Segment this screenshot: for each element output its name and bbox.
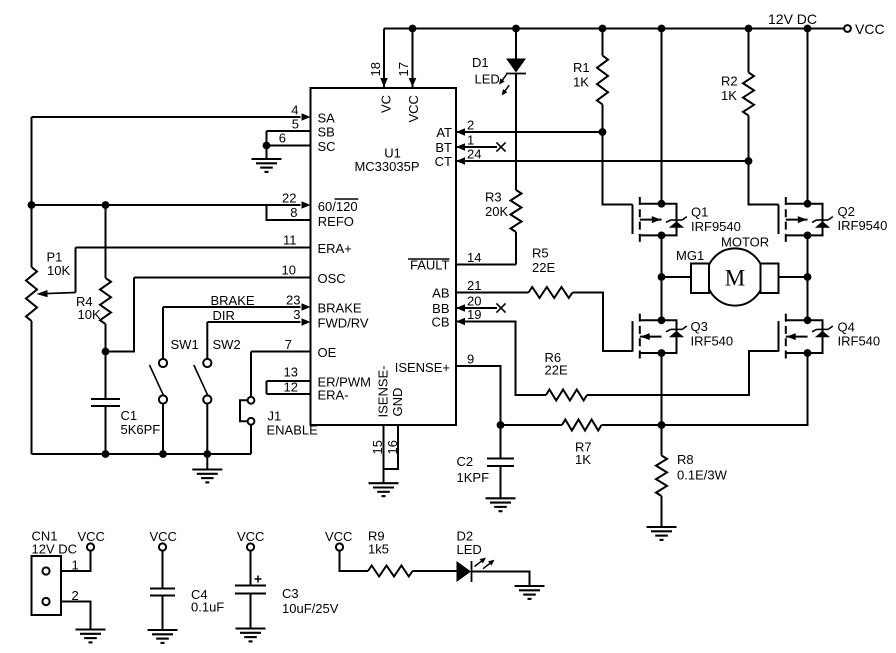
resistor R7 1K bbox=[562, 420, 602, 431]
label C1 5K6PF bbox=[121, 408, 161, 437]
svg-text:R8: R8 bbox=[677, 452, 694, 467]
pin labels U1 right side bbox=[395, 125, 452, 375]
label C2 1KPF bbox=[457, 454, 490, 485]
wire R5 to Q3 gate bbox=[573, 293, 633, 352]
wire GND pin 16 bbox=[384, 425, 399, 469]
label DIR bbox=[213, 308, 235, 323]
svg-text:3: 3 bbox=[293, 307, 300, 322]
wire ISENSE- pin 15 bbox=[383, 425, 385, 483]
svg-text:12V DC: 12V DC bbox=[768, 11, 817, 27]
svg-text:MG1: MG1 bbox=[676, 248, 704, 263]
pin labels U1 rotated bbox=[376, 95, 422, 418]
wire Q1 source to motor node A bbox=[658, 235, 666, 281]
svg-text:12V DC: 12V DC bbox=[32, 542, 78, 557]
wire R9 to D2 bbox=[413, 570, 457, 572]
svg-text:14: 14 bbox=[467, 250, 481, 265]
label C3 10uF/25V bbox=[282, 586, 339, 616]
svg-text:VCC: VCC bbox=[855, 21, 885, 37]
label Q4 IRF540 bbox=[838, 320, 881, 349]
svg-text:DIR: DIR bbox=[213, 308, 235, 323]
svg-text:R3: R3 bbox=[485, 190, 502, 205]
wire bottom rail bbox=[32, 450, 252, 458]
wire R2 to CT node bbox=[748, 116, 750, 162]
capacitor C1 5K6PF bbox=[91, 352, 120, 455]
wire D2 cathode to ground bbox=[472, 572, 530, 586]
wire VCC to R9 bbox=[340, 551, 369, 571]
label Q2 IRF9540 bbox=[838, 204, 888, 233]
svg-text:OE: OE bbox=[318, 345, 337, 360]
pin number 23 bbox=[286, 293, 300, 308]
svg-text:IRF540: IRF540 bbox=[691, 334, 734, 349]
wire R3 to FAULT pin 14 bbox=[456, 232, 516, 265]
wire REFO pin 8 bbox=[267, 205, 311, 220]
wire R6 to Q4 gate bbox=[587, 351, 779, 395]
resistor R1 1K bbox=[597, 56, 608, 105]
resistor R4 10K bbox=[100, 278, 111, 324]
wire Q3 source to sense node bbox=[661, 353, 663, 425]
svg-text:BRAKE: BRAKE bbox=[211, 293, 255, 308]
svg-text:10K: 10K bbox=[47, 263, 70, 278]
wire rail to R2 bbox=[745, 25, 753, 73]
svg-text:2: 2 bbox=[467, 118, 474, 133]
label D1 LED bbox=[472, 55, 500, 87]
label C4 0.1uF bbox=[191, 587, 224, 615]
pin number 22 bbox=[282, 191, 296, 206]
label CN1 12V DC bbox=[32, 529, 78, 557]
wire motor node B to Q4 drain bbox=[807, 277, 809, 320]
svg-text:10K: 10K bbox=[78, 307, 101, 322]
wire ISENSE+ pin 9 bbox=[456, 366, 504, 429]
svg-text:VCC: VCC bbox=[78, 529, 105, 544]
wire Q4 source return bbox=[662, 353, 808, 425]
svg-text:IRF9540: IRF9540 bbox=[838, 218, 888, 233]
resistor R9 1k5 bbox=[368, 566, 413, 577]
svg-text:0.1E/3W: 0.1E/3W bbox=[677, 468, 728, 483]
pin number 16 bbox=[385, 440, 400, 454]
resistor R5 22E bbox=[529, 287, 573, 298]
svg-text:6: 6 bbox=[279, 131, 286, 146]
wire OSC pin 10 bbox=[134, 277, 311, 279]
svg-text:AT: AT bbox=[436, 125, 452, 140]
svg-text:Q2: Q2 bbox=[838, 204, 855, 219]
resistor R3 20K bbox=[511, 190, 522, 232]
svg-text:1: 1 bbox=[467, 133, 474, 148]
svg-text:VCC: VCC bbox=[237, 529, 264, 544]
svg-text:SW1: SW1 bbox=[171, 337, 199, 352]
wire Q2 source to motor node B bbox=[804, 235, 812, 281]
wire FWD/RV pin 3 bbox=[207, 318, 310, 326]
wire CB pin 19 to R6 bbox=[456, 318, 546, 395]
svg-text:D1: D1 bbox=[472, 55, 489, 70]
power terminal VCC (top right) bbox=[844, 21, 884, 37]
wire left column bottom bbox=[31, 321, 33, 454]
pin number 20 bbox=[467, 294, 481, 309]
svg-text:20K: 20K bbox=[485, 204, 508, 219]
svg-text:23: 23 bbox=[286, 293, 300, 308]
wire ER/PWM pin 13 bbox=[267, 381, 311, 394]
resistor R6 22E bbox=[546, 390, 587, 401]
pin number 12 bbox=[284, 380, 298, 395]
pin number 24 bbox=[467, 147, 481, 162]
wire BB pin 20 (no connect) bbox=[456, 303, 506, 312]
label MOTOR MG1 bbox=[676, 235, 769, 264]
label R3 20K bbox=[485, 190, 508, 220]
svg-text:SW2: SW2 bbox=[213, 337, 241, 352]
svg-text:24: 24 bbox=[467, 147, 481, 162]
wire motor node A to Q3 drain bbox=[661, 277, 663, 320]
wire ERA+ pin 11 bbox=[76, 247, 311, 249]
motor MG1 bbox=[662, 248, 808, 305]
label R1 1K bbox=[573, 60, 590, 90]
svg-text:2: 2 bbox=[72, 588, 79, 603]
svg-text:1K: 1K bbox=[721, 88, 737, 103]
svg-text:22E: 22E bbox=[545, 363, 568, 378]
pin number 5 bbox=[292, 117, 299, 132]
op-amp U1 MC33035P body bbox=[311, 88, 457, 425]
pin 17 label bbox=[396, 62, 411, 76]
svg-text:Q4: Q4 bbox=[838, 320, 855, 335]
wire CN1 pin 1 to VCC bbox=[61, 551, 91, 571]
pin number 19 bbox=[467, 307, 481, 322]
svg-text:10: 10 bbox=[282, 263, 296, 278]
svg-text:OSC: OSC bbox=[318, 271, 346, 286]
wire C2 node to R7 bbox=[501, 424, 563, 426]
svg-text:GND: GND bbox=[390, 388, 405, 417]
svg-text:M: M bbox=[725, 266, 745, 291]
ground C4 bbox=[148, 630, 178, 643]
svg-text:MOTOR: MOTOR bbox=[721, 235, 769, 250]
label R9 1k5 bbox=[368, 529, 389, 557]
svg-text:1K: 1K bbox=[573, 75, 589, 90]
ground C3 bbox=[236, 629, 266, 642]
svg-text:SB: SB bbox=[318, 125, 335, 140]
svg-text:22: 22 bbox=[282, 191, 296, 206]
svg-text:SA: SA bbox=[318, 111, 336, 126]
power terminal VCC (C3) bbox=[237, 529, 264, 551]
potentiometer P1 10K bbox=[26, 248, 76, 322]
ground D2 bbox=[515, 586, 545, 599]
svg-text:BT: BT bbox=[435, 140, 452, 155]
label R4 10K bbox=[76, 294, 101, 322]
pin number 6 bbox=[279, 131, 286, 146]
power terminal VCC (CN1) bbox=[78, 529, 105, 551]
wire BT pin 1 (no connect) bbox=[456, 142, 506, 151]
svg-text:LED: LED bbox=[475, 72, 500, 87]
svg-text:ENABLE: ENABLE bbox=[267, 423, 319, 438]
wire VC pin 18 feed bbox=[380, 29, 388, 88]
pin number 15 bbox=[370, 440, 385, 454]
diode D1 LED bbox=[499, 59, 526, 96]
label R7 1K bbox=[575, 440, 592, 468]
wire R4 to OSC node bbox=[102, 324, 110, 355]
svg-text:7: 7 bbox=[285, 337, 292, 352]
svg-text:FWD/RV: FWD/RV bbox=[318, 316, 369, 331]
label SW2 bbox=[213, 337, 241, 352]
wire Q2 gate feed bbox=[749, 161, 779, 205]
ground bottom rail bbox=[192, 454, 222, 482]
label SW1 bbox=[171, 337, 199, 352]
svg-text:ISENSE-: ISENSE- bbox=[376, 365, 391, 417]
svg-text:CB: CB bbox=[431, 315, 449, 330]
pin number 7 bbox=[285, 337, 292, 352]
svg-text:IRF9540: IRF9540 bbox=[691, 219, 741, 234]
wire 60/120 pin 22 bbox=[28, 201, 311, 209]
svg-text:Q1: Q1 bbox=[691, 205, 708, 220]
label P1 10K bbox=[47, 250, 71, 279]
svg-text:C2: C2 bbox=[457, 454, 474, 469]
pin number 10 bbox=[282, 263, 296, 278]
wire Q1 gate feed bbox=[603, 132, 633, 205]
svg-text:17: 17 bbox=[396, 62, 411, 76]
label R5 22E bbox=[532, 246, 555, 276]
wire SB pin 5 bbox=[267, 131, 311, 146]
wire D1 cathode to R3 bbox=[515, 74, 517, 191]
resistor R2 1K bbox=[743, 73, 754, 116]
svg-text:BRAKE: BRAKE bbox=[318, 301, 362, 316]
wire BRAKE pin 23 bbox=[163, 303, 311, 311]
svg-text:1: 1 bbox=[72, 558, 79, 573]
svg-text:Q3: Q3 bbox=[691, 319, 708, 334]
label R6 22E bbox=[545, 350, 568, 378]
pin number 2 bbox=[72, 588, 79, 603]
svg-text:0.1uF: 0.1uF bbox=[191, 600, 224, 615]
node 12V DC label bbox=[768, 11, 817, 27]
svg-text:18: 18 bbox=[368, 62, 383, 76]
wire rail to Q1 drain bbox=[658, 25, 666, 204]
svg-text:5K6PF: 5K6PF bbox=[121, 422, 161, 437]
transistor Q4 IRF540 bbox=[779, 314, 833, 360]
capacitor C2 1KPF bbox=[487, 425, 514, 498]
svg-text:1K: 1K bbox=[575, 452, 591, 467]
wire CT pin 24 bbox=[456, 157, 752, 165]
wire 60/120 node to R4 bbox=[105, 205, 107, 278]
svg-text:ERA+: ERA+ bbox=[318, 241, 352, 256]
wire AT pin 2 bbox=[456, 128, 606, 136]
svg-text:60/120: 60/120 bbox=[318, 199, 358, 214]
label R8 0.1E/3W bbox=[677, 452, 728, 483]
svg-text:1KPF: 1KPF bbox=[457, 470, 490, 485]
wire rail to R1 bbox=[599, 25, 607, 56]
power terminal VCC (R9) bbox=[325, 529, 352, 551]
connector CN1 bbox=[32, 556, 62, 615]
svg-text:5: 5 bbox=[292, 117, 299, 132]
transistor Q2 IRF9540 bbox=[779, 197, 833, 242]
svg-text:1k5: 1k5 bbox=[368, 542, 389, 557]
pin number 1 bbox=[467, 133, 474, 148]
label BRAKE bbox=[211, 293, 255, 308]
label R2 1K bbox=[721, 74, 738, 104]
svg-text:AB: AB bbox=[432, 286, 449, 301]
svg-text:VCC: VCC bbox=[406, 95, 421, 122]
svg-text:9: 9 bbox=[467, 352, 474, 367]
pin number 1 bbox=[72, 558, 79, 573]
svg-text:R5: R5 bbox=[532, 246, 549, 261]
svg-text:CT: CT bbox=[435, 154, 452, 169]
resistor R8 0.1E/3W bbox=[656, 425, 667, 527]
svg-text:VCC: VCC bbox=[150, 529, 177, 544]
svg-text:11: 11 bbox=[283, 233, 297, 248]
wire OSC node to pin 10 bbox=[106, 278, 135, 352]
svg-text:R1: R1 bbox=[573, 60, 590, 75]
diode D2 LED bbox=[457, 558, 495, 582]
svg-text:VC: VC bbox=[379, 95, 394, 113]
pin number 4 bbox=[291, 103, 298, 118]
svg-text:SC: SC bbox=[318, 139, 336, 154]
transistor Q1 IRF9540 bbox=[633, 197, 687, 242]
wire R1 to AT node bbox=[602, 105, 604, 133]
transistor Q3 IRF540 bbox=[633, 314, 687, 360]
wire AB pin 21 to R5 bbox=[456, 292, 529, 294]
ground C2 bbox=[486, 498, 516, 511]
svg-text:10uF/25V: 10uF/25V bbox=[282, 601, 339, 616]
pin number 2 bbox=[467, 118, 474, 133]
svg-text:ISENSE+: ISENSE+ bbox=[395, 360, 450, 375]
wire SA pin 4 bbox=[32, 113, 311, 121]
capacitor C3 10uF/25V bbox=[235, 551, 266, 629]
label J1 ENABLE bbox=[267, 409, 319, 438]
power terminal VCC (C4) bbox=[150, 529, 177, 551]
ground R8 bbox=[647, 527, 677, 540]
svg-text:FAULT: FAULT bbox=[410, 258, 450, 273]
svg-text:REFO: REFO bbox=[318, 214, 354, 229]
ground SB/SC bbox=[252, 146, 282, 172]
pin number 14 bbox=[467, 250, 481, 265]
svg-text:12: 12 bbox=[284, 380, 298, 395]
svg-text:LED: LED bbox=[457, 542, 482, 557]
label Q3 IRF540 bbox=[691, 319, 734, 349]
svg-text:22E: 22E bbox=[532, 260, 555, 275]
svg-text:C1: C1 bbox=[121, 408, 138, 423]
wire OE pin 7 bbox=[251, 351, 311, 353]
pin number 3 bbox=[293, 307, 300, 322]
label D2 LED bbox=[457, 529, 482, 558]
pin labels U1 left side bbox=[318, 111, 371, 403]
switch SW1 bbox=[150, 307, 168, 454]
pin number 11 bbox=[283, 233, 297, 248]
svg-text:R2: R2 bbox=[721, 74, 738, 89]
svg-text:19: 19 bbox=[467, 307, 481, 322]
wire D1 anode from rail bbox=[512, 25, 520, 59]
wire R7 to sense node bbox=[602, 421, 666, 429]
svg-text:C3: C3 bbox=[282, 586, 299, 601]
svg-text:4: 4 bbox=[291, 103, 298, 118]
switch SW2 bbox=[194, 322, 212, 454]
svg-text:IRF540: IRF540 bbox=[838, 334, 881, 349]
wire rail to Q2 drain bbox=[804, 25, 812, 204]
ground U1 pins 15/16 bbox=[369, 483, 399, 496]
pin number 13 bbox=[284, 365, 298, 380]
svg-text:8: 8 bbox=[290, 205, 297, 220]
pin 18 label bbox=[368, 62, 383, 76]
svg-text:21: 21 bbox=[467, 278, 481, 293]
ground CN1 bbox=[76, 630, 106, 643]
pin number 8 bbox=[290, 205, 297, 220]
pin number 9 bbox=[467, 352, 474, 367]
svg-text:MC33035P: MC33035P bbox=[354, 159, 419, 174]
jumper J1 ENABLE bbox=[240, 352, 254, 455]
svg-text:ERA-: ERA- bbox=[318, 388, 349, 403]
wire left column top (SA run) bbox=[31, 117, 33, 267]
svg-text:J1: J1 bbox=[268, 409, 282, 424]
wire VCC pin 17 feed bbox=[409, 25, 417, 87]
wire CN1 pin 2 to ground bbox=[61, 602, 91, 630]
wire ERA- pin 12 bbox=[267, 393, 311, 395]
capacitor C4 0.1uF bbox=[150, 551, 175, 630]
svg-text:VCC: VCC bbox=[325, 529, 352, 544]
svg-text:13: 13 bbox=[284, 365, 298, 380]
wire SC pin 6 bbox=[263, 142, 311, 150]
pin number 21 bbox=[467, 278, 481, 293]
label Q1 IRF9540 bbox=[691, 205, 741, 235]
wire 12V DC power rail bbox=[384, 28, 844, 30]
